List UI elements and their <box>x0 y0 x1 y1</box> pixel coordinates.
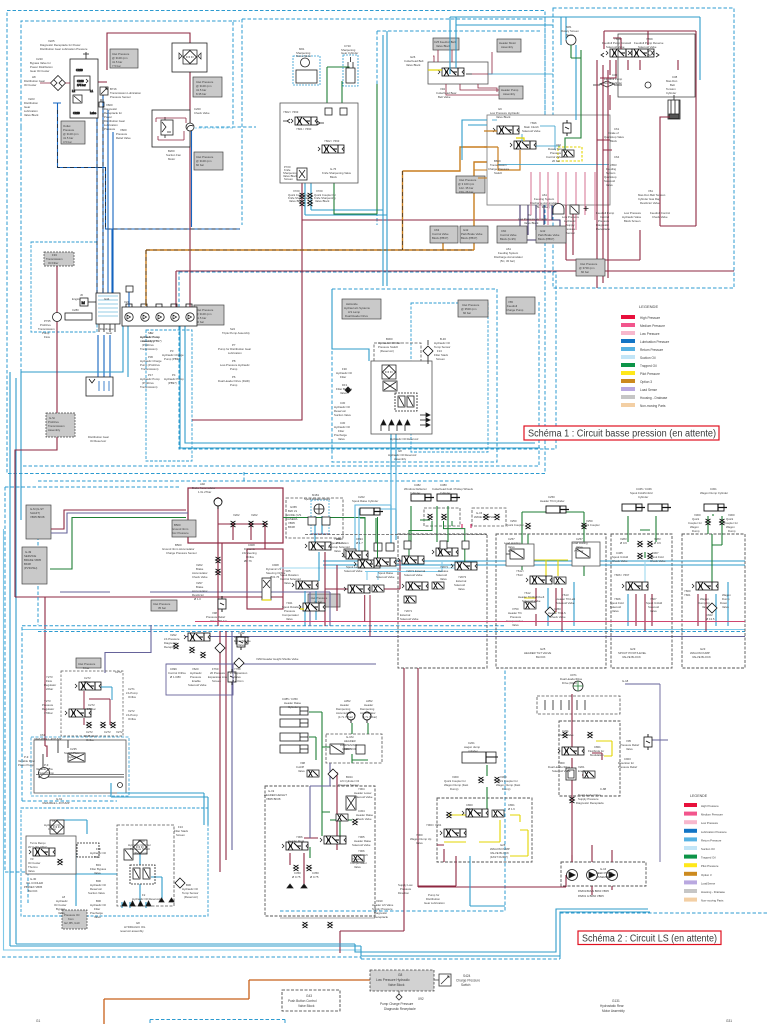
svg-text:C-88: C-88 <box>600 787 607 791</box>
svg-text:Solenoid Valve: Solenoid Valve <box>552 769 571 773</box>
svg-text:Solenoid Valve: Solenoid Valve <box>376 575 395 579</box>
sensor <box>345 387 351 393</box>
svg-text:60 bar: 60 bar <box>463 311 471 315</box>
svg-text:Solenoid Valve: Solenoid Valve <box>344 569 363 573</box>
container F33 transmission filter dashed <box>31 242 97 332</box>
wire orange main <box>146 147 487 306</box>
svg-text:Push Button Control: Push Button Control <box>288 999 317 1003</box>
svg-text:G-18: G-18 <box>622 679 629 683</box>
K2 header tilt <box>546 506 569 513</box>
svg-text:97bar: 97bar <box>508 549 515 553</box>
svg-text:Block: Block <box>610 139 617 143</box>
svg-text:C272: C272 <box>115 670 122 674</box>
svg-text:Valve: Valve <box>650 609 657 613</box>
svg-text:Sensor: Sensor <box>566 231 575 235</box>
svg-text:Belt Valve: Belt Valve <box>438 95 451 99</box>
svg-text:Cylinder: Cylinder <box>68 755 78 759</box>
wires right box <box>450 17 700 288</box>
svg-text:60 bar: 60 bar <box>196 163 204 167</box>
svg-text:Valve Block: Valve Block <box>524 221 539 225</box>
wire blue lubrication left spine <box>53 103 240 293</box>
svg-text:Receptacle: Receptacle <box>164 645 178 649</box>
svg-text:Valve: Valve <box>338 437 345 441</box>
svg-text:Y666 / Y667: Y666 / Y667 <box>614 573 630 577</box>
svg-text:Header Tilt Cylinder: Header Tilt Cylinder <box>540 499 565 503</box>
svg-text:(5C, 30 bar): (5C, 30 bar) <box>500 259 515 263</box>
purple text box <box>166 664 233 695</box>
svg-text:Distribution Gear Lubrication: Distribution Gear Lubrication Pressure <box>40 47 88 51</box>
svg-text:Valve: Valve <box>58 911 65 915</box>
svg-text:Low Pressure: Low Pressure <box>640 332 660 336</box>
box A92 brake accumulator <box>188 488 283 543</box>
P720 screen <box>297 168 307 180</box>
svg-text:LEGENDE: LEGENDE <box>639 304 658 309</box>
accumulator A61 <box>553 204 589 215</box>
maroon wiring <box>433 50 499 95</box>
svg-text:Header Float: Header Float <box>288 839 304 843</box>
svg-text:Ø 13.5: Ø 13.5 <box>706 617 715 621</box>
P735 circle + C280 <box>53 313 62 322</box>
Y941 valve <box>299 603 325 611</box>
gray boxes <box>433 38 459 50</box>
svg-text:Medium Pressure: Medium Pressure <box>701 813 723 817</box>
left LS valves <box>184 633 210 641</box>
svg-text:Check Valve: Check Valve <box>650 559 666 563</box>
svg-text:Ø 0.75: Ø 0.75 <box>292 875 301 879</box>
box C61 variable L-R pump <box>34 740 126 793</box>
svg-text:Oil Filter: Oil Filter <box>48 261 58 265</box>
variable pump <box>39 768 50 779</box>
G26 fast dump valves <box>462 809 488 817</box>
regulator cluster dashed box <box>61 671 123 736</box>
svg-text:Y613: Y613 <box>516 573 523 577</box>
svg-text:G2, B5, G10: G2, B5, G10 <box>64 921 80 925</box>
gray boxes schema2 left <box>26 505 51 539</box>
svg-text:20 bar: 20 bar <box>552 159 560 163</box>
svg-text:reservoir assembly: reservoir assembly <box>120 929 144 933</box>
svg-text:Valve: Valve <box>440 577 447 581</box>
svg-text:Check Valve: Check Valve <box>194 111 210 115</box>
svg-text:G43: G43 <box>306 994 312 998</box>
svg-text:Valve: Valve <box>94 915 101 919</box>
wave coupler top box <box>472 508 506 526</box>
wire teal pump outputs down <box>180 326 540 448</box>
K1 valves <box>402 582 428 590</box>
svg-text:Check Valve: Check Valve <box>558 733 574 737</box>
svg-text:Restrictor Valve: Restrictor Valve <box>640 201 660 205</box>
wire blue bundle to gear <box>97 75 113 293</box>
valve row A <box>342 524 477 570</box>
svg-text:Solenoid Valve: Solenoid Valve <box>556 601 575 605</box>
svg-text:7.5 bar: 7.5 bar <box>112 64 121 68</box>
svg-text:Oil Reservoir: Oil Reservoir <box>90 439 106 443</box>
valve block C220 <box>70 59 98 118</box>
svg-text:Spout Raise Cylinder: Spout Raise Cylinder <box>352 499 378 503</box>
svg-text:S424: S424 <box>463 974 471 978</box>
wire green spout cylinder drops <box>365 517 465 562</box>
G8 low pressure block <box>370 970 434 991</box>
receptacle X600 <box>99 99 104 107</box>
K3 spout fold <box>622 504 645 511</box>
svg-text:Assembly: Assembly <box>394 457 407 461</box>
svg-text:Valve: Valve <box>354 865 361 869</box>
wire teal knife couplers <box>305 31 387 286</box>
box G25 header tilt valve block <box>611 534 672 668</box>
X92 receptacle <box>396 991 402 1000</box>
Y325 valve <box>292 581 318 589</box>
svg-text:Pump Charge Pressure: Pump Charge Pressure <box>380 1002 414 1006</box>
svg-text:Motor Assembly: Motor Assembly <box>602 1009 625 1013</box>
filter cluster top D8 <box>172 43 207 72</box>
svg-text:LoadSense: LoadSense <box>701 881 716 885</box>
wire maroon top loop <box>95 33 190 307</box>
motor M61 <box>301 58 310 67</box>
wire crimson LS rail <box>195 621 745 623</box>
svg-text:Ø 1.0: Ø 1.0 <box>194 597 201 601</box>
svg-text:Option 3: Option 3 <box>701 873 712 877</box>
svg-text:Ø 1.7: Ø 1.7 <box>356 541 363 545</box>
svg-text:Cylinder: Cylinder <box>288 705 298 709</box>
svg-text:Valve Block: Valve Block <box>315 199 330 203</box>
svg-text:C64: C64 <box>614 155 620 159</box>
svg-text:Housing - Drainase: Housing - Drainase <box>701 890 725 894</box>
svg-text:Check Valve: Check Valve <box>550 615 566 619</box>
svg-text:Pressure: Pressure <box>104 127 116 131</box>
pump box G-16 <box>567 870 578 881</box>
container outer dashed <box>7 11 545 474</box>
maroon A92 internals <box>218 497 265 592</box>
svg-text:Valve: Valve <box>702 605 709 609</box>
svg-text:Pressure Relief: Pressure Relief <box>618 765 637 769</box>
svg-text:High Pressure: High Pressure <box>640 316 660 320</box>
svg-text:Ø 1.7: Ø 1.7 <box>336 541 343 545</box>
svg-text:Triple Pump Assembly: Triple Pump Assembly <box>222 331 250 335</box>
svg-text:Receptacle: Receptacle <box>374 915 388 919</box>
svg-text:X272: X272 <box>116 730 123 734</box>
engine J6 <box>80 298 88 306</box>
svg-text:Quick Coupler: Quick Coupler <box>506 523 524 527</box>
svg-text:Valve Block: Valve Block <box>406 63 421 67</box>
spout raise cylinder <box>360 508 383 515</box>
reservoir P1 <box>86 377 113 396</box>
svg-text:Lubrication: Lubrication <box>228 351 242 355</box>
svg-text:LEGENDE: LEGENDE <box>690 794 708 798</box>
svg-text:Dual Reader Drive: Dual Reader Drive <box>345 314 368 318</box>
svg-text:Schéma 1 : Circuit basse press: Schéma 1 : Circuit basse pression (en at… <box>528 429 716 440</box>
wagon dump cylinder mid <box>462 752 496 763</box>
oil cooler cluster teal <box>50 820 117 906</box>
svg-text:Pilot Pressure: Pilot Pressure <box>701 864 719 868</box>
svg-text:Ø0.76: Ø0.76 <box>244 559 252 563</box>
wire blue crank <box>128 292 130 307</box>
svg-text:Acc Pressure: Acc Pressure <box>172 531 189 535</box>
motor M81 <box>566 35 576 45</box>
S424 switch <box>439 974 451 986</box>
svg-text:Hydraulic Oil Reservoir: Hydraulic Oil Reservoir <box>132 897 161 901</box>
svg-text:Ø 1.6: Ø 1.6 <box>466 807 473 811</box>
box G8 hydraulic oil reservoir assembly <box>21 808 208 916</box>
header dampening internals <box>330 744 344 754</box>
valve Y662/Y663 <box>318 145 344 153</box>
svg-text:G8: G8 <box>398 973 402 977</box>
V98 relief <box>218 596 226 612</box>
svg-text:770 bar: 770 bar <box>574 549 584 553</box>
svg-text:WAVE COUPLER: WAVE COUPLER <box>474 515 496 519</box>
svg-text:Valve: Valve <box>612 609 619 613</box>
oil cooler etc <box>50 820 64 834</box>
svg-text:Gear Cylinder: Gear Cylinder <box>341 51 358 55</box>
svg-text:(Reservoir): (Reservoir) <box>184 895 198 899</box>
svg-text:Charge Pressure Sensor: Charge Pressure Sensor <box>166 551 197 555</box>
svg-text:Modulation: Modulation <box>590 753 604 757</box>
box G29 spout pivot valve block <box>682 534 745 668</box>
svg-text:Drive (DHD): Drive (DHD) <box>562 681 577 685</box>
svg-text:Block (PB37): Block (PB37) <box>432 236 448 240</box>
fan cluster C200/B200 <box>152 110 233 147</box>
DHD box wires <box>572 694 602 862</box>
long teal horizontal y561 <box>323 561 745 565</box>
wire green knife <box>327 67 377 214</box>
svg-text:X92: X92 <box>418 997 424 1001</box>
svg-text:Charge Pump: Charge Pump <box>506 308 524 312</box>
svg-text:Lubrication Pressure: Lubrication Pressure <box>701 830 727 834</box>
svg-text:Ø 0.75: Ø 0.75 <box>310 875 319 879</box>
svg-text:Screen: Screen <box>436 357 445 361</box>
small boxes above valve2 <box>325 108 332 115</box>
wagon dump cylinder green <box>478 765 487 812</box>
container mid dashed (conveyor/knife) <box>242 19 545 170</box>
svg-text:VARIABLE L-R PUMP: VARIABLE L-R PUMP <box>34 737 62 741</box>
svg-text:PA801 & B060 VB05: PA801 & B060 VB05 <box>578 894 604 898</box>
heat exchanger H8 <box>51 76 66 91</box>
svg-text:VALVE BLOCK: VALVE BLOCK <box>692 655 711 659</box>
svg-text:C220: C220 <box>73 111 80 115</box>
svg-text:Orifice: Orifice <box>86 738 95 742</box>
svg-text:Solenoid Valve: Solenoid Valve <box>522 599 541 603</box>
svg-text:Valve: Valve <box>284 581 291 585</box>
svg-text:Y661: Y661 <box>684 593 691 597</box>
svg-text:Orifice: Orifice <box>128 717 137 721</box>
svg-text:Dump): Dump) <box>450 787 458 791</box>
svg-text:Receptacle: Receptacle <box>596 227 610 231</box>
svg-text:(PB97): (PB97) <box>168 381 177 385</box>
svg-text:W/ C-W H 80 C: W/ C-W H 80 C <box>28 845 47 849</box>
outer container schema2 <box>5 470 460 880</box>
svg-text:Schéma 2 : Circuit LS (en atte: Schéma 2 : Circuit LS (en attente) <box>582 934 717 945</box>
svg-text:Valve 350 bar: Valve 350 bar <box>210 619 227 623</box>
svg-text:Cooler: Cooler <box>48 827 56 831</box>
purple vert left <box>51 510 186 529</box>
container inner dashed left <box>21 21 240 127</box>
sensor B716 <box>100 87 108 95</box>
wire teal left spine down <box>10 372 21 946</box>
svg-text:VARIABLE L-R PUMP: VARIABLE L-R PUMP <box>42 801 70 805</box>
svg-text:Motor: Motor <box>168 157 175 161</box>
wire maroon pilot drops <box>365 595 370 636</box>
svg-text:Valve: Valve <box>28 869 35 873</box>
box G-19 header height valve block <box>265 786 375 916</box>
svg-text:Diagnostic Receptacle: Diagnostic Receptacle <box>384 1007 416 1011</box>
accumulators A352 <box>347 712 355 723</box>
svg-text:Cylinder: Cylinder <box>638 495 648 499</box>
svg-text:Transmission): Transmission) <box>140 347 158 351</box>
teal from schema1 down (x391) <box>355 470 396 556</box>
svg-text:Ø 4.0mm: Ø 4.0mm <box>232 679 244 683</box>
relief V292 <box>237 634 245 650</box>
svg-text:Assembly: Assembly <box>48 428 61 432</box>
svg-text:(PV30/SH): (PV30/SH) <box>24 566 37 570</box>
box spout raise cluster <box>286 498 343 538</box>
box G-18 wave coupler <box>537 696 620 714</box>
svg-text:VALVE BLOCK: VALVE BLOCK <box>622 655 641 659</box>
svg-text:Solenoid Valve: Solenoid Valve <box>352 843 371 847</box>
yellow small <box>516 138 524 141</box>
svg-text:Ø31.76: Ø31.76 <box>270 575 280 579</box>
svg-text:Return Pressure: Return Pressure <box>640 348 663 352</box>
svg-text:X202: X202 <box>251 513 258 517</box>
svg-text:Valve: Valve <box>416 841 423 845</box>
svg-text:Gear: Gear <box>106 331 112 335</box>
svg-text:Block: Block <box>330 175 337 179</box>
svg-text:Pump: Pump <box>230 367 238 371</box>
svg-text:Quick Coupler: Quick Coupler <box>582 523 600 527</box>
svg-text:Suction Valve: Suction Valve <box>88 891 105 895</box>
svg-text:Load Sense: Load Sense <box>640 388 657 392</box>
svg-text:Wagon Dump Cylinder: Wagon Dump Cylinder <box>700 491 728 495</box>
svg-text:Pump (PB97): Pump (PB97) <box>164 357 181 361</box>
svg-text:Charge Pressure: Charge Pressure <box>456 979 480 983</box>
spout motor wires <box>305 516 322 626</box>
K2 green: header tilt <box>522 512 584 576</box>
box G-16 feed pump assembly <box>561 862 646 886</box>
svg-text:Lube: Lube <box>90 111 97 115</box>
reservoir2 internals <box>122 853 162 908</box>
svg-text:Pilot Pressure: Pilot Pressure <box>640 372 660 376</box>
svg-text:Return Pressure: Return Pressure <box>701 838 722 842</box>
K2 teal/maroon down <box>536 588 562 631</box>
svg-text:Valve: Valve <box>298 769 305 773</box>
svg-text:cylinder: cylinder <box>468 749 478 753</box>
svg-text:X24: X24 <box>124 300 129 304</box>
container right dashed B <box>553 8 734 288</box>
maroon down from knife/reservoir to schema2 <box>218 543 222 626</box>
svg-text:Valve: Valve <box>722 605 729 609</box>
svg-text:ASSEMBLY: ASSEMBLY <box>596 875 611 879</box>
svg-text:Screen: Screen <box>176 833 185 837</box>
X24 <box>126 286 133 292</box>
wire blue gear to reservoir <box>98 335 110 377</box>
svg-text:8.35 bar: 8.35 bar <box>196 92 206 96</box>
K2 yellow <box>524 560 568 612</box>
wire maroon knife drop <box>192 162 560 420</box>
svg-text:Valve Block: Valve Block <box>388 983 405 987</box>
svg-text:Low Pressure Hydraulic: Low Pressure Hydraulic <box>376 978 410 982</box>
svg-text:L2: L2 <box>72 89 76 93</box>
svg-text:VB05 BK08: VB05 BK08 <box>30 515 45 519</box>
svg-text:150- 26 bar: 150- 26 bar <box>459 190 473 194</box>
light blue <box>280 567 460 569</box>
maroon/teal/purple bundle x220 <box>220 631 226 872</box>
svg-text:Piston Pump: Piston Pump <box>18 763 34 767</box>
svg-text:Piston Pump: Piston Pump <box>38 771 54 775</box>
svg-text:Y661 / Y660: Y661 / Y660 <box>296 127 312 131</box>
svg-text:Solenoid Valve: Solenoid Valve <box>404 573 423 577</box>
K3 wires <box>628 516 656 558</box>
svg-text:Oil Cooler: Oil Cooler <box>24 83 37 87</box>
svg-text:G44: G44 <box>104 297 110 301</box>
svg-text:Screen: Screen <box>284 177 293 181</box>
svg-text:Transmission): Transmission) <box>141 367 159 371</box>
svg-text:Solenoid Valve: Solenoid Valve <box>188 683 207 687</box>
svg-text:Block (PB37): Block (PB37) <box>461 236 477 240</box>
svg-text:Enabler: Enabler <box>578 769 588 773</box>
svg-text:35 bar: 35 bar <box>158 606 166 610</box>
svg-text:Filter: Filter <box>94 855 100 859</box>
svg-text:Valve: Valve <box>512 623 519 627</box>
svg-text:Control Cylinder: Control Cylinder <box>602 81 622 85</box>
svg-text:(4.7L 70bar): (4.7L 70bar) <box>362 715 377 719</box>
svg-text:Valve: Valve <box>340 391 347 395</box>
svg-text:Pressure Sensor: Pressure Sensor <box>110 95 131 99</box>
Mac-Don sensor <box>668 100 680 119</box>
V98 cutoff <box>307 770 319 777</box>
svg-text:Valve Block: Valve Block <box>289 199 304 203</box>
svg-text:Dump: Dump <box>692 529 700 533</box>
big dashed outline schema2 <box>22 626 745 632</box>
svg-text:22bar: 22bar <box>84 680 91 684</box>
title schema 2 <box>578 931 721 945</box>
svg-text:(Reservoir): (Reservoir) <box>380 349 394 353</box>
svg-text:Valve: Valve <box>458 587 465 591</box>
valves in G9 <box>493 126 519 134</box>
purple long LS line <box>60 592 330 626</box>
spout motor M181 <box>314 504 324 514</box>
svg-text:Switch: Switch <box>494 171 503 175</box>
svg-text:Ø 1.6: Ø 1.6 <box>508 807 515 811</box>
C908 orifice valve <box>262 578 271 600</box>
small valves mid <box>344 549 356 557</box>
windrow cylinders top right <box>411 494 434 501</box>
svg-text:Flow: Flow <box>44 335 51 339</box>
container red-pumps dashed <box>146 330 192 461</box>
svg-text:Option 3: Option 3 <box>640 380 652 384</box>
svg-text:3.5 bar: 3.5 bar <box>63 140 72 144</box>
svg-text:G1: G1 <box>36 1019 40 1023</box>
svg-text:Screen: Screen <box>212 679 221 683</box>
svg-text:Cylinder: Cylinder <box>440 491 450 495</box>
green cylinders left group <box>360 506 448 557</box>
svg-text:Suction Valve: Suction Valve <box>334 413 351 417</box>
svg-text:Non-moving Parts: Non-moving Parts <box>640 404 666 408</box>
svg-text:Suction Oil: Suction Oil <box>701 847 715 851</box>
svg-text:Assembly: Assembly <box>503 92 516 96</box>
svg-text:22bar: 22bar <box>46 687 53 691</box>
wire orange bottom <box>104 980 370 1024</box>
svg-text:Stone Motor: Stone Motor <box>296 54 311 58</box>
svg-text:BK08: BK08 <box>288 525 295 529</box>
svg-text:Ø 0.6: Ø 0.6 <box>654 541 661 545</box>
reservoir2 <box>133 840 147 854</box>
wire lightblue valve returns <box>365 562 442 580</box>
svg-text:PA801/B/A & B060 VB05: PA801/B/A & B060 VB05 <box>578 889 609 893</box>
svg-text:Relief Valve: Relief Valve <box>116 136 131 140</box>
svg-text:Check Valve: Check Valve <box>612 559 628 563</box>
svg-text:Pressure Sensor: Pressure Sensor <box>338 783 359 787</box>
svg-text:Cylinder: Cylinder <box>410 491 420 495</box>
valve bits <box>74 76 90 90</box>
svg-text:Motor: Motor <box>566 33 573 37</box>
G43 box <box>282 990 340 1011</box>
